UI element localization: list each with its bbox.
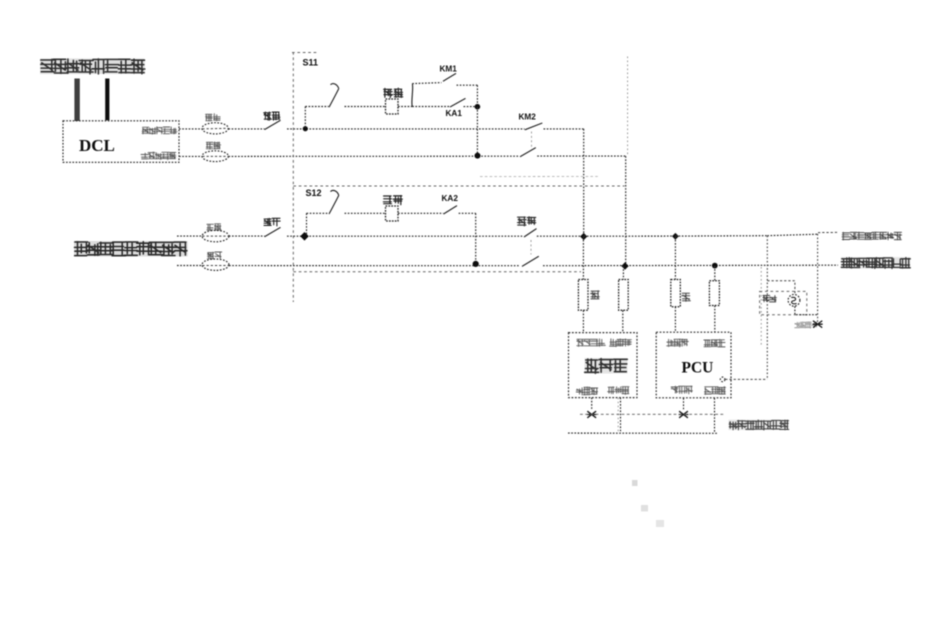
svg-text:KM1: KM1 xyxy=(440,65,458,74)
label: PCU output terminal xyxy=(705,387,726,395)
wire: coil bottom out xyxy=(795,306,818,314)
wire: column 4 from lower bus xyxy=(714,266,716,281)
label: PCU power+ terminal xyxy=(667,339,689,347)
resistor R5 xyxy=(671,280,681,307)
wire: DCL HV output to fuse FU1 xyxy=(179,128,202,130)
wire: LV return drops to lower bus xyxy=(625,156,627,266)
switch S2 blade xyxy=(329,190,339,214)
wire: column 1 from positive bus xyxy=(582,237,584,280)
svg-text:KA2: KA2 xyxy=(442,194,459,203)
resistor R11 (precharge) xyxy=(386,99,399,114)
wire: column 3 from positive bus xyxy=(674,237,676,280)
block: PCU box xyxy=(656,332,731,398)
wire: KM3 pole b along lower bus xyxy=(543,264,838,267)
contact KA2 blade xyxy=(444,206,458,214)
svg-text:S11: S11 xyxy=(303,58,319,68)
wire: PCU case ground drop xyxy=(683,398,685,410)
resistor R4 xyxy=(619,280,629,311)
label FU1 xyxy=(206,114,221,121)
wire: battery feed to fuse FU3 xyxy=(177,235,202,237)
wire: junction drop to LV line xyxy=(476,107,478,156)
label: DCL output 2 (LV side) xyxy=(141,152,176,160)
mechanical link KM3 poles xyxy=(530,240,532,255)
label: AC high-voltage power input (Chinese) xyxy=(40,59,145,75)
resistor R12 (precharge) xyxy=(386,206,399,221)
label R12 xyxy=(383,196,402,205)
block U1: DCL converter box xyxy=(63,121,179,163)
wire: positive bus to right terminal xyxy=(767,234,817,236)
breaker DK1 contact blade xyxy=(265,120,281,129)
wire: lower branch drop to negative bus xyxy=(475,213,477,263)
label R3 xyxy=(591,291,600,299)
label: DCL output 1 (HV side) xyxy=(142,127,177,134)
wire: KM1 branch drop to junction xyxy=(476,85,478,106)
junction dot on LV line xyxy=(475,153,481,159)
wire: KM2 pole a to corner xyxy=(544,128,584,130)
label FU4 xyxy=(207,252,221,259)
contact KM2 pole a blade xyxy=(525,123,543,130)
junction: lower precharge tap (arrow) xyxy=(300,232,309,241)
wire: switch S2 to resistor R12 xyxy=(345,212,386,214)
scan artifact speck 1 xyxy=(632,480,638,486)
chassis ground mark: regulator xyxy=(587,411,597,418)
resistor R6 xyxy=(709,281,719,306)
label: regulator power- terminal xyxy=(610,339,632,347)
wire: FU3 to breaker DK2 xyxy=(229,235,265,237)
breaker DK2 contact blade xyxy=(265,227,281,236)
label FU3 xyxy=(207,224,221,231)
svg-text:KA1: KA1 xyxy=(446,109,463,118)
wire: coil supply drop from positive bus xyxy=(766,236,768,380)
wire: column 2 from lower bus xyxy=(622,266,624,280)
wire: KA2 to right corner xyxy=(459,212,476,214)
wire: dashed link PCU to relay coil xyxy=(725,378,767,380)
relay coil KM box (dashed) xyxy=(760,291,807,314)
wire: positive bus to coil corner xyxy=(675,235,767,237)
label: to HV battery positive (Chinese) xyxy=(842,232,902,240)
contact KM1 blade xyxy=(443,73,456,81)
wire: FU1 to breaker DK1 xyxy=(228,128,264,130)
resistor R3 xyxy=(578,280,588,311)
wire: battery negative to fuse FU4 xyxy=(177,265,202,267)
contact KM3 pole b blade xyxy=(522,256,539,266)
label KM3 xyxy=(518,217,536,226)
dashed box S12 bottom edge xyxy=(293,271,581,273)
junction: HV feed joins positive bus xyxy=(580,233,587,240)
wire: DK1 to KM2 pole a xyxy=(287,128,525,130)
wire: precharge branch tap vertical xyxy=(304,107,306,129)
wire: KM3 pole a to bus xyxy=(537,235,584,237)
wire: R6 to PCU box xyxy=(714,306,716,333)
contact KM2 pole b blade xyxy=(520,148,536,157)
dashed box S12 top edge xyxy=(293,185,624,187)
label R5 xyxy=(682,293,691,301)
label: regulator ground terminal xyxy=(576,387,597,395)
wire: R3 to regulator box xyxy=(582,310,584,332)
mechanical link KM2 poles xyxy=(531,132,533,148)
junction: LV return joins lower bus xyxy=(621,262,628,269)
wire: faint twin of regulator drop xyxy=(617,398,619,433)
junction dot on lower bus xyxy=(473,261,479,267)
wire: DCL LV output to fuse FU2 xyxy=(179,155,202,157)
label DK1 xyxy=(264,112,280,120)
chassis connection mark (asterisk) xyxy=(813,321,823,328)
wire: R12 to KA2 contact xyxy=(398,212,443,214)
contact KA1 blade xyxy=(450,98,466,107)
wire: R5 to PCU box xyxy=(674,307,676,333)
wire: KM1 branch to right corner xyxy=(457,84,478,86)
scan artifact speck 3 xyxy=(656,520,664,527)
wire: R4 to regulator box xyxy=(622,310,624,332)
wire: regulator case ground drop xyxy=(591,398,593,410)
wire: chassis ground dashed line xyxy=(580,413,724,415)
wire: input bar 1 into DCL xyxy=(74,79,79,122)
wire: R11 to branch split xyxy=(398,106,412,108)
wire: faint twin of coil drop xyxy=(760,267,762,346)
dashed box S11 left edge xyxy=(292,52,294,302)
wire: switch S1 to resistor R11 xyxy=(345,106,386,108)
wire: KA1 to junction xyxy=(464,106,478,108)
wire: lower branch to switch S2 xyxy=(307,212,329,214)
wire: branch to switch S1 xyxy=(305,106,328,108)
fuse FU4 xyxy=(202,259,229,270)
wire: positive bus middle segment xyxy=(584,235,676,237)
label: PCU power- terminal xyxy=(704,339,725,347)
wire: lower branch tap vertical xyxy=(306,213,308,234)
fuse FU2 xyxy=(202,151,228,162)
label DK2 xyxy=(264,218,280,226)
junction: PCU column on positive bus xyxy=(672,233,679,240)
label: chassis tie point (faint) xyxy=(795,322,817,328)
wire: FU4 to KM3 pole b xyxy=(229,265,519,267)
label: regulator name (Chinese) xyxy=(585,358,628,373)
relay coil circle xyxy=(788,294,800,306)
label: to LV battery positive (Chinese) xyxy=(841,257,910,268)
wire: input bar 2 into DCL xyxy=(105,79,109,121)
svg-text:DCL: DCL xyxy=(79,136,115,155)
label: regulator power+ terminal xyxy=(577,339,605,347)
coil winding curve xyxy=(791,297,796,303)
leader: dashes to HV battery positive label xyxy=(818,231,838,233)
svg-text:KM2: KM2 xyxy=(519,112,537,121)
wire: FU2 to KM2 pole b xyxy=(228,155,519,157)
wire: DK2 to KM3 pole a xyxy=(287,235,524,237)
terminal circle: PCU coil drive output xyxy=(720,377,725,382)
junction: precharge branches join xyxy=(475,104,481,110)
scan artifact speck 2 xyxy=(641,505,648,512)
label: LV battery negative (Chinese) xyxy=(729,420,789,430)
block: voltage regulator box xyxy=(569,333,638,398)
wire: terminal drop to chassis point xyxy=(817,234,819,323)
fuse FU3 xyxy=(202,230,229,241)
wire: branch to KA1 contact xyxy=(412,106,449,108)
label: host battery low-voltage supply (Chinese) xyxy=(74,241,188,257)
label: regulator output terminal xyxy=(608,387,629,395)
wire: KM2 pole b to corner at x624 xyxy=(537,155,626,157)
wire: KM1 branch upper segment xyxy=(412,83,441,84)
wire: riser to KM1 contact branch xyxy=(411,84,414,107)
label R11 xyxy=(384,88,403,97)
label FU2 xyxy=(206,142,220,149)
contact KM3 pole a blade xyxy=(524,229,537,237)
fuse FU1 xyxy=(202,123,228,134)
svg-text:S12: S12 xyxy=(306,188,322,198)
dashed box S11 top stub xyxy=(292,52,317,54)
junction: PCU column on lower bus xyxy=(712,263,718,269)
label: PCU ground terminal xyxy=(671,386,692,394)
leader: faint vertical above LV corner xyxy=(627,57,629,156)
switch S1 blade xyxy=(329,84,339,108)
wire: PCU negative drop to bottom bus xyxy=(714,398,716,433)
label: coil KM marks xyxy=(763,296,777,302)
svg-text:PCU: PCU xyxy=(682,360,714,377)
wire: coil feed branch xyxy=(767,281,795,295)
chassis ground mark: PCU xyxy=(679,411,689,418)
wire: faint ghost line above S12 box xyxy=(480,175,600,177)
wire: bottom negative bus xyxy=(568,432,717,434)
junction: precharge tap on HV line xyxy=(303,126,308,131)
wire: regulator negative drop to bottom bus xyxy=(620,398,622,433)
wire: HV line drops down to positive bus xyxy=(583,129,585,237)
